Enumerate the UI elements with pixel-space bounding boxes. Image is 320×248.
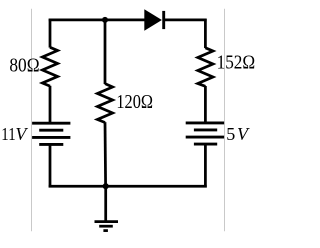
node dot bottom junction (103, 183, 109, 189)
battery V2 5V (186, 123, 224, 144)
svg-text:152Ω: 152Ω (217, 52, 256, 73)
resistor R3 152Ω (198, 48, 213, 87)
svg-text:80Ω: 80Ω (9, 55, 39, 76)
svg-text:5: 5 (226, 124, 235, 144)
node dot top junction (102, 17, 108, 23)
wire bottom (49, 185, 207, 188)
wire left upper (49, 19, 52, 48)
resistor R1 80Ω (42, 47, 57, 86)
wire middle upper (104, 20, 107, 84)
wire middle lower (104, 122, 107, 186)
resistor R2 120Ω (97, 84, 112, 123)
wire ground stem (104, 186, 107, 221)
battery V1 11V (32, 123, 70, 144)
value label 5 V (226, 124, 250, 144)
wire left middle (49, 86, 52, 124)
wire right upper (204, 19, 207, 48)
wire right lower (204, 144, 207, 188)
ground (95, 222, 119, 231)
wire top (node A) (49, 19, 207, 22)
wire left lower (49, 144, 52, 187)
svg-text:V: V (237, 124, 250, 144)
wire right middle (204, 86, 207, 123)
value label 11 V (1, 124, 28, 144)
diode D1 (144, 9, 163, 30)
svg-text:120Ω: 120Ω (116, 92, 153, 113)
svg-text:V: V (15, 124, 28, 144)
